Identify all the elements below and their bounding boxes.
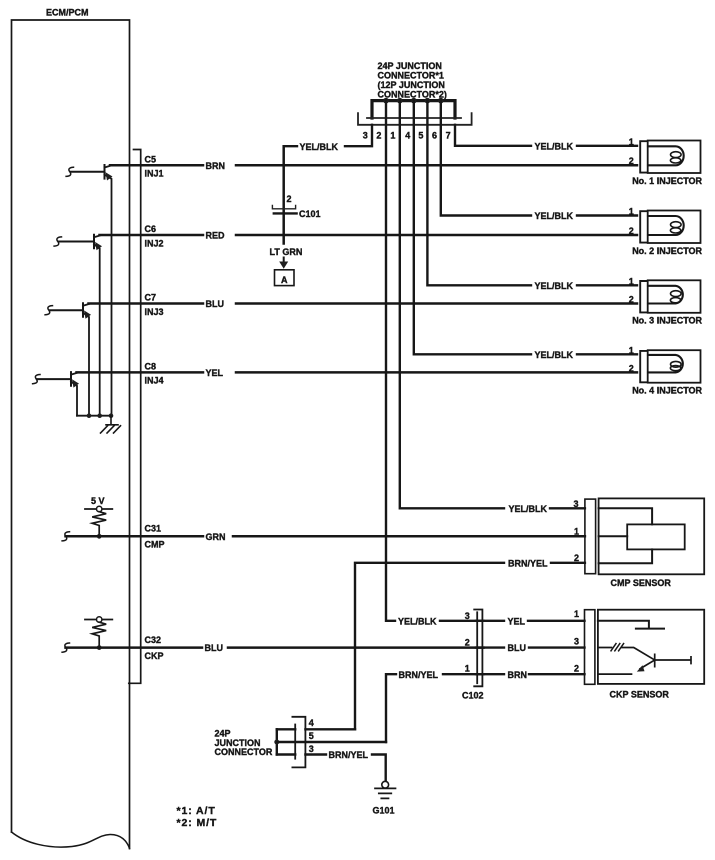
junction dot (97, 413, 102, 418)
svg-text:*1: A/T: *1: A/T (177, 805, 216, 817)
svg-text:C32: C32 (145, 635, 162, 645)
junction dot (97, 534, 102, 539)
svg-text:C8: C8 (145, 361, 157, 371)
svg-text:RED: RED (206, 231, 226, 241)
svg-text:BRN/YEL: BRN/YEL (329, 750, 369, 760)
svg-text:3: 3 (363, 131, 368, 141)
No. 2 injector (629, 207, 703, 256)
svg-text:BLU: BLU (206, 299, 225, 309)
svg-text:INJ3: INJ3 (145, 307, 164, 317)
junction dot (274, 740, 279, 745)
svg-text:CKP SENSOR: CKP SENSOR (610, 690, 670, 700)
5V reference (CMP pull-up) (85, 496, 112, 537)
svg-text:CKP: CKP (145, 651, 164, 661)
junction dot pin 6 (438, 98, 444, 104)
junction dot pin 2 (383, 98, 389, 104)
wire pin4 to No.4 injector (414, 101, 637, 355)
svg-text:1: 1 (629, 137, 634, 147)
svg-text:5: 5 (418, 131, 423, 141)
wire pin1 to CMP sensor (400, 101, 585, 509)
emitter bus wire (77, 415, 111, 417)
svg-text:*2: M/T: *2: M/T (177, 817, 218, 829)
svg-text:BLU: BLU (508, 643, 527, 653)
svg-text:4: 4 (405, 131, 410, 141)
svg-text:5: 5 (309, 731, 314, 741)
wire BRN (C102 to CKP) (476, 673, 585, 675)
wire C31 GRN (66, 535, 585, 538)
pin 7 leg to No.1 injector (455, 125, 637, 146)
svg-text:2: 2 (629, 363, 634, 373)
svg-text:2: 2 (629, 156, 634, 166)
svg-text:3: 3 (309, 744, 314, 754)
svg-text:C7: C7 (145, 293, 157, 303)
junction dot pin 5 (425, 98, 431, 104)
svg-text:1: 1 (465, 664, 470, 674)
connector symbol (bottom junction) (294, 725, 296, 759)
ground (chassis, inside ECM) (101, 416, 121, 433)
svg-text:YEL/BLK: YEL/BLK (535, 350, 574, 360)
svg-text:2: 2 (287, 194, 292, 204)
pin numbers 3 2 1 4 5 6 7 (363, 131, 451, 141)
transistor Q2 (INJ2 driver) (54, 235, 102, 416)
svg-text:C6: C6 (145, 224, 157, 234)
svg-text:INJ4: INJ4 (145, 376, 164, 386)
junction dot (97, 645, 102, 650)
ground G101 (373, 781, 396, 815)
svg-text:2: 2 (574, 664, 579, 674)
wire C6 RED (100, 234, 638, 237)
svg-text:YEL/BLK: YEL/BLK (535, 141, 574, 151)
wire C8 YEL (77, 371, 638, 374)
CKP sensor (585, 610, 705, 700)
pin 3 leg to YEL/BLK (284, 125, 372, 146)
ECM/PCM torn bottom edge (12, 832, 130, 849)
svg-text:No. 2 INJECTOR: No. 2 INJECTOR (632, 246, 702, 256)
wire pin5 (to C102 BRN/YEL riser) (277, 741, 386, 743)
svg-text:YEL: YEL (508, 616, 526, 626)
svg-text:BLU: BLU (205, 643, 224, 653)
24P junction connector (bottom) label (215, 729, 273, 757)
connector C102 (462, 610, 484, 701)
svg-text:CONNECTOR*2): CONNECTOR*2) (378, 90, 447, 100)
svg-text:YEL/BLK: YEL/BLK (535, 211, 574, 221)
No. 4 injector (629, 345, 703, 395)
ECM connector bracket (129, 150, 141, 684)
svg-text:CONNECTOR: CONNECTOR (215, 747, 273, 757)
svg-text:BRN: BRN (206, 161, 226, 171)
svg-text:C102: C102 (462, 691, 484, 701)
No. 3 injector (629, 276, 703, 325)
bus stubs (277, 729, 295, 754)
pull-up (CKP) (85, 617, 112, 648)
svg-text:YEL/BLK: YEL/BLK (535, 281, 574, 291)
svg-text:LT GRN: LT GRN (270, 247, 303, 257)
wire BRN/YEL to CMP pin2 (355, 563, 585, 730)
svg-text:2: 2 (629, 226, 634, 236)
svg-text:CMP SENSOR: CMP SENSOR (611, 578, 672, 588)
svg-text:C5: C5 (145, 154, 157, 164)
junction dot (87, 413, 92, 418)
svg-text:INJ2: INJ2 (145, 238, 164, 248)
svg-text:1: 1 (574, 527, 579, 537)
wire pin5 to No.3 injector (427, 101, 637, 286)
svg-text:BRN: BRN (508, 670, 528, 680)
svg-text:C101: C101 (299, 209, 321, 219)
wire pin2 to C102 (386, 101, 484, 621)
svg-text:BRN/YEL: BRN/YEL (399, 670, 439, 680)
svg-text:3: 3 (574, 636, 579, 646)
connector C101 (272, 206, 295, 209)
svg-text:24P JUNCTION: 24P JUNCTION (378, 61, 442, 71)
svg-text:INJ1: INJ1 (145, 169, 164, 179)
svg-text:5 V: 5 V (91, 496, 105, 506)
junction bus bar (top) (372, 101, 455, 118)
svg-text:1: 1 (629, 276, 634, 286)
svg-text:1: 1 (629, 345, 634, 355)
transistor Q4 (INJ4 driver) (33, 372, 79, 416)
svg-text:No. 1 INJECTOR: No. 1 INJECTOR (632, 176, 702, 186)
transistor Q1 (INJ1 driver) (66, 165, 112, 416)
svg-text:4: 4 (309, 718, 314, 728)
connector symbol (top junction) (367, 117, 461, 119)
svg-text:1: 1 (390, 131, 395, 141)
svg-text:6: 6 (432, 131, 437, 141)
svg-text:7: 7 (446, 131, 451, 141)
svg-text:YEL/BLK: YEL/BLK (398, 616, 437, 626)
svg-text:1: 1 (629, 207, 634, 217)
svg-text:2: 2 (376, 131, 381, 141)
svg-text:ECM/PCM: ECM/PCM (46, 8, 89, 18)
svg-text:C31: C31 (145, 524, 162, 534)
wire pin4 (to CMP BRN/YEL riser) (305, 728, 355, 730)
wire BRN/YEL to C102 pin1 (386, 674, 484, 742)
wire BLU (C102 to CKP) (476, 646, 585, 648)
svg-text:YEL: YEL (206, 368, 224, 378)
svg-text:2: 2 (465, 638, 470, 648)
wire pin6 to No.2 injector (441, 101, 637, 216)
No. 1 injector (629, 137, 703, 186)
svg-text:BRN/YEL: BRN/YEL (508, 558, 548, 568)
transistor Q3 (INJ3 driver) (45, 303, 91, 416)
svg-text:YEL/BLK: YEL/BLK (300, 142, 339, 152)
svg-text:G101: G101 (373, 806, 395, 816)
wire C32 BLU (66, 646, 484, 649)
connector box A (275, 270, 295, 286)
svg-text:No. 3 INJECTOR: No. 3 INJECTOR (632, 316, 702, 326)
24P junction connector label (top) (378, 61, 447, 100)
C101 branch vertical (282, 146, 285, 243)
wire C5 BRN (110, 164, 637, 167)
wire pin3 to G101 (305, 755, 385, 782)
ECM/PCM box (12, 20, 130, 849)
svg-text:3: 3 (465, 611, 470, 621)
junction dot (109, 413, 114, 418)
svg-text:(12P JUNCTION: (12P JUNCTION (378, 80, 445, 90)
junction dot pin 4 (411, 98, 417, 104)
svg-text:1: 1 (574, 609, 579, 619)
svg-text:A: A (281, 275, 288, 285)
svg-text:3: 3 (574, 499, 579, 509)
junction dot pin 1 (397, 98, 403, 104)
svg-text:No. 4 INJECTOR: No. 4 INJECTOR (632, 386, 702, 396)
junction bus bar (bottom) (276, 729, 278, 754)
svg-text:GRN: GRN (206, 532, 226, 542)
svg-text:2: 2 (629, 294, 634, 304)
wire YEL (C102 to CKP) (476, 620, 585, 622)
CMP sensor (574, 498, 705, 588)
svg-text:CONNECTOR*1: CONNECTOR*1 (378, 71, 444, 81)
svg-text:CMP: CMP (145, 539, 165, 549)
arrow to A (283, 258, 285, 262)
svg-text:2: 2 (574, 553, 579, 563)
svg-text:YEL/BLK: YEL/BLK (509, 504, 548, 514)
wire C7 BLU (89, 302, 638, 305)
